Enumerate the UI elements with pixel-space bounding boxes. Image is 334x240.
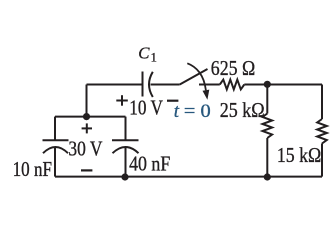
svg-text:40 nF: 40 nF — [129, 152, 170, 176]
wire bottom rail — [55, 176, 322, 178]
svg-text:30 V: 30 V — [68, 136, 102, 160]
wire top-left vertical — [86, 85, 88, 117]
wire mid rail — [55, 116, 126, 118]
svg-text:= 0: = 0 — [184, 101, 211, 122]
wire 25k branch upper — [266, 85, 268, 114]
svg-text:15 kΩ: 15 kΩ — [277, 143, 321, 167]
plus sign of 10 V — [116, 95, 128, 106]
node junction dot bottom 25k — [264, 173, 271, 180]
capacitor C1 — [143, 72, 153, 98]
wire left branch upper — [54, 117, 56, 140]
node junction dot top 625/25k — [264, 81, 271, 88]
node junction dot top-left — [83, 113, 90, 120]
label t = 0 — [174, 101, 211, 122]
switch actuation arc t=0 — [187, 63, 209, 99]
switch blade — [180, 69, 208, 85]
resistor 25 kohm — [263, 114, 273, 139]
minus sign of 30 V — [81, 169, 92, 171]
wire resistor to right corner — [244, 84, 322, 86]
wire 40nF branch upper — [125, 117, 127, 140]
svg-text:625 Ω: 625 Ω — [211, 56, 255, 80]
wire right branch lower — [321, 144, 323, 177]
minus sign of 10 V — [167, 100, 178, 102]
resistor 15 kohm — [317, 119, 327, 144]
svg-text:10 nF: 10 nF — [13, 157, 52, 181]
label C1 — [138, 43, 157, 64]
capacitor 40 nF — [112, 140, 139, 153]
svg-text:C: C — [138, 43, 150, 62]
wire 40nF branch lower — [125, 148, 127, 177]
wire 25k branch lower — [266, 138, 268, 177]
svg-text:t: t — [174, 101, 180, 122]
wire C1 to switch — [151, 84, 180, 86]
svg-text:10 V: 10 V — [129, 95, 163, 119]
wire right branch upper — [321, 85, 323, 120]
svg-text:1: 1 — [151, 51, 157, 65]
wire left branch lower — [54, 148, 56, 177]
wire top rail left segment — [87, 84, 142, 86]
svg-text:25 kΩ: 25 kΩ — [220, 98, 265, 122]
resistor 625 ohm — [220, 80, 245, 90]
wire switch to resistor — [199, 84, 220, 86]
capacitor 10 nF — [43, 140, 69, 153]
plus sign of 30 V — [82, 123, 92, 133]
node junction dot bottom 40nF — [121, 173, 128, 180]
